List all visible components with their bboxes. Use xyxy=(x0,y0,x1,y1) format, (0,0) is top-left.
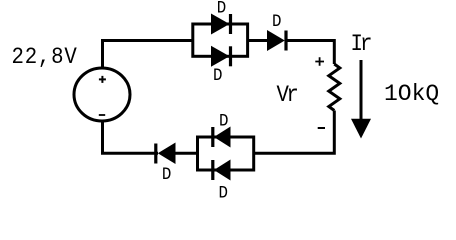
svg-text:1OkQ: 1OkQ xyxy=(384,81,439,107)
resistor R 10kQ zigzag xyxy=(329,64,340,111)
resistor plus polarity mark xyxy=(315,57,324,66)
top parallel diode pair loop xyxy=(193,24,248,56)
voltage source V1 circle xyxy=(74,68,130,121)
voltage source plus mark xyxy=(99,76,106,83)
voltage source minus mark xyxy=(99,114,105,116)
wire: right rail below resistor and bottom rail right segment xyxy=(254,111,335,154)
diode D6 (bottom branch of bottom block, pointing left) xyxy=(213,160,231,181)
svg-text:D: D xyxy=(219,183,228,203)
svg-text:D: D xyxy=(219,111,228,131)
svg-text:D: D xyxy=(272,11,281,31)
wire: source bottom lead and bottom rail left segment xyxy=(103,122,159,154)
svg-text:22,8V: 22,8V xyxy=(12,44,78,70)
diode D3 (series top, pointing right) xyxy=(267,30,286,51)
svg-text:D: D xyxy=(217,0,226,18)
svg-text:D: D xyxy=(162,164,171,184)
svg-text:Ir: Ir xyxy=(351,31,373,57)
diode D5 (top branch of bottom block, pointing left) xyxy=(213,127,231,148)
svg-text:Vr: Vr xyxy=(277,82,299,108)
wire: source top lead up and top rail left segment xyxy=(103,41,193,70)
diode D2 (bottom branch of top block, pointing right) xyxy=(211,46,231,67)
resistor minus polarity mark xyxy=(318,127,325,129)
svg-text:D: D xyxy=(213,65,222,85)
wire: between top block and diode D3 xyxy=(248,39,268,42)
wire: between diode D4 and bottom block xyxy=(176,152,198,155)
diode D1 (top branch, pointing right) xyxy=(211,14,231,35)
current arrow Ir pointing down xyxy=(351,60,371,139)
wire: top rail right segment and right rail down to resistor xyxy=(286,41,334,65)
diode D4 (series bottom, pointing left) xyxy=(156,143,176,165)
bottom parallel diode pair loop xyxy=(198,137,254,170)
